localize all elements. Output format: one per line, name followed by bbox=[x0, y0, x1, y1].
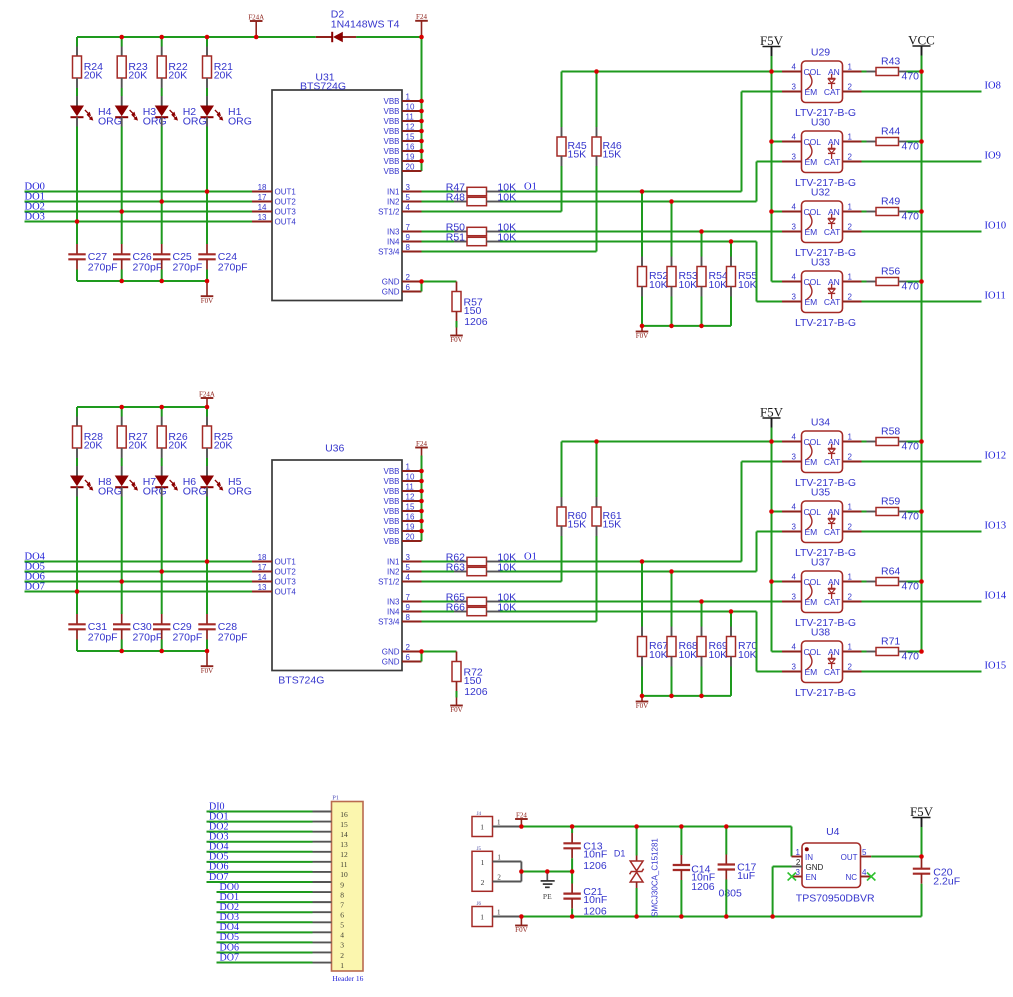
resistor R66 bbox=[446, 601, 516, 615]
svg-text:270pF: 270pF bbox=[133, 631, 163, 643]
resistor R64 bbox=[862, 566, 920, 593]
junction C14 top bbox=[679, 824, 684, 829]
svg-text:14: 14 bbox=[258, 203, 267, 212]
pin 16 VBB of U36 bbox=[383, 513, 421, 526]
pin 17 OUT2 of U36 bbox=[252, 563, 296, 576]
svg-text:9: 9 bbox=[406, 603, 411, 612]
resistor R70 bbox=[727, 612, 758, 667]
svg-text:1: 1 bbox=[497, 909, 501, 917]
resistor R67 bbox=[638, 562, 669, 667]
svg-text:2: 2 bbox=[406, 273, 411, 282]
power flag VCC bbox=[908, 33, 935, 56]
power flag F24 (supply in) bbox=[515, 811, 528, 819]
svg-text:VBB: VBB bbox=[383, 497, 399, 506]
svg-text:VBB: VBB bbox=[383, 157, 399, 166]
wire IO11 bbox=[862, 301, 982, 303]
svg-text:1: 1 bbox=[406, 93, 411, 102]
resistor R44 bbox=[862, 126, 920, 153]
svg-text:20K: 20K bbox=[128, 439, 147, 451]
wire left column drop bbox=[76, 407, 78, 417]
pin 5 of P1 bbox=[313, 921, 345, 930]
svg-text:3: 3 bbox=[792, 453, 797, 462]
junction F5V row3 bbox=[769, 209, 774, 214]
svg-text:2: 2 bbox=[848, 293, 853, 302]
svg-text:1206: 1206 bbox=[464, 316, 488, 328]
wire pulldown ground bus bbox=[642, 695, 731, 697]
optocoupler U29 LTV-217-B-G bbox=[782, 46, 862, 119]
svg-text:GND: GND bbox=[806, 863, 824, 872]
pin 10 VBB of U36 bbox=[383, 473, 421, 486]
wire R61 down bbox=[596, 536, 598, 622]
svg-text:F0V: F0V bbox=[450, 706, 462, 714]
resistor R23 bbox=[117, 37, 148, 88]
resistor R21 bbox=[203, 37, 234, 88]
wire F24 stub bbox=[421, 21, 423, 37]
wire U36 pin to R66 bbox=[422, 611, 455, 613]
wire R45 down bbox=[561, 166, 563, 212]
svg-text:SMCJ30CA_C151281: SMCJ30CA_C151281 bbox=[651, 838, 660, 917]
svg-text:15K: 15K bbox=[603, 149, 622, 161]
wire F24A stub bbox=[255, 21, 257, 37]
svg-text:8: 8 bbox=[406, 243, 411, 252]
svg-text:ST3/4: ST3/4 bbox=[378, 617, 400, 626]
wire U4 GND down bbox=[773, 866, 792, 868]
svg-text:13: 13 bbox=[340, 840, 348, 849]
svg-text:3: 3 bbox=[792, 593, 797, 602]
wire DO4 to P1 pin 4 bbox=[217, 931, 313, 933]
resistor R25 bbox=[203, 407, 234, 458]
svg-text:IN1: IN1 bbox=[387, 557, 400, 566]
junction bus bbox=[159, 649, 164, 654]
svg-text:6: 6 bbox=[406, 653, 411, 662]
svg-text:20: 20 bbox=[406, 163, 415, 172]
svg-text:20K: 20K bbox=[168, 439, 187, 451]
junction H7 output bbox=[119, 579, 124, 584]
ground flag F0V (LED bus) bbox=[201, 666, 214, 675]
junction R64 VCC bbox=[919, 579, 924, 584]
wire R72 to F0V bbox=[456, 691, 458, 698]
svg-text:1206: 1206 bbox=[691, 881, 715, 893]
wire F5V to opto2 COL bbox=[772, 141, 783, 143]
junction R44 VCC bbox=[919, 139, 924, 144]
resistor R53 bbox=[667, 202, 698, 297]
wire IO12 bbox=[862, 461, 982, 463]
wire DO6 to P1 pin 2 bbox=[217, 951, 313, 953]
svg-text:20: 20 bbox=[406, 533, 415, 542]
svg-text:6: 6 bbox=[406, 283, 411, 292]
svg-text:U32: U32 bbox=[811, 186, 830, 198]
power flag F5V bbox=[760, 33, 784, 56]
wire ST3/4 to R46 bbox=[422, 621, 597, 623]
svg-text:2: 2 bbox=[848, 663, 853, 672]
resistor R50 bbox=[446, 221, 516, 235]
resistor R71 bbox=[862, 636, 920, 663]
svg-text:3: 3 bbox=[792, 523, 797, 532]
wire top F24A rail bbox=[77, 406, 207, 408]
wire IN1 riser bbox=[741, 92, 743, 192]
pin 20 VBB of U36 bbox=[383, 533, 421, 546]
svg-text:R43: R43 bbox=[881, 56, 900, 68]
wire DO4 to P1 pin 12 bbox=[207, 851, 313, 853]
svg-text:1: 1 bbox=[848, 433, 853, 442]
svg-text:1206: 1206 bbox=[464, 686, 488, 698]
IC U31 BTS724G body bbox=[272, 71, 402, 300]
junction R59 VCC bbox=[919, 509, 924, 514]
svg-text:20K: 20K bbox=[128, 69, 147, 81]
resistor R28 bbox=[73, 407, 104, 458]
wire R53 to bus bbox=[671, 297, 673, 326]
LED H3 bbox=[115, 96, 167, 128]
svg-text:10: 10 bbox=[340, 870, 348, 879]
junction bus bbox=[119, 649, 124, 654]
wire IO8 bbox=[862, 91, 982, 93]
svg-text:17: 17 bbox=[258, 563, 267, 572]
wire DO3 to P1 pin 5 bbox=[217, 921, 313, 923]
wire R64 to VCC rail bbox=[907, 581, 922, 583]
svg-text:20K: 20K bbox=[84, 69, 103, 81]
svg-text:270pF: 270pF bbox=[133, 261, 163, 273]
pin 10 VBB of U31 bbox=[383, 103, 421, 116]
wire U36 pin to R63 bbox=[422, 571, 455, 573]
wire F0V stub bbox=[520, 917, 522, 926]
resistor R61 bbox=[592, 442, 622, 537]
wire C26 to gnd bus bbox=[121, 270, 123, 282]
junction F5V row2 bbox=[769, 509, 774, 514]
LED H8 bbox=[70, 466, 122, 498]
wire IN2 riser bbox=[756, 532, 758, 572]
wire C13 to mid bbox=[571, 858, 573, 871]
wire bus to F0V bbox=[206, 651, 208, 666]
svg-text:ST3/4: ST3/4 bbox=[378, 247, 400, 256]
wire IO14 bbox=[862, 601, 982, 603]
svg-text:17: 17 bbox=[258, 193, 267, 202]
wire C20 to bottom rail bbox=[921, 884, 923, 917]
capacitor C29 bbox=[153, 614, 202, 643]
junction R52 top bbox=[640, 189, 645, 194]
wire DO3 to P1 pin 13 bbox=[207, 841, 313, 843]
pin 18 OUT1 of U31 bbox=[252, 183, 296, 196]
svg-text:COL: COL bbox=[804, 67, 822, 77]
svg-text:J6: J6 bbox=[477, 902, 482, 907]
svg-text:1: 1 bbox=[848, 63, 853, 72]
wire IN4 row bbox=[500, 241, 757, 243]
svg-text:COL: COL bbox=[804, 207, 822, 217]
resistor R43 bbox=[862, 56, 920, 83]
wire H6 to capacitor bbox=[161, 572, 163, 615]
svg-text:IN2: IN2 bbox=[387, 197, 400, 206]
svg-text:OUT4: OUT4 bbox=[275, 217, 297, 226]
capacitor C31 bbox=[68, 614, 117, 643]
svg-text:10K: 10K bbox=[649, 279, 668, 291]
resistor R60 bbox=[557, 442, 587, 537]
svg-text:IO8: IO8 bbox=[985, 81, 1001, 92]
resistor R27 bbox=[117, 407, 148, 458]
wire F5V to opto4 COL bbox=[772, 651, 783, 653]
wire IN4 dropper bbox=[756, 612, 758, 672]
power flag F24 (block2) bbox=[415, 440, 428, 448]
wire R60 down bbox=[561, 536, 563, 582]
pin 1 VBB of U31 bbox=[383, 93, 421, 106]
svg-text:3: 3 bbox=[340, 941, 344, 950]
resistor R55 bbox=[727, 242, 758, 297]
wire IO15 bbox=[862, 671, 982, 673]
junction H6 output bbox=[159, 569, 164, 574]
svg-text:20K: 20K bbox=[214, 439, 233, 451]
junction R68 top bbox=[669, 569, 674, 574]
resistor R63 bbox=[446, 561, 516, 575]
wire bottom supply rail bbox=[521, 916, 921, 918]
wire LED H6 down bbox=[161, 497, 163, 572]
svg-text:IO9: IO9 bbox=[985, 151, 1001, 162]
wire D1 to bottom rail bbox=[636, 888, 638, 917]
svg-text:270pF: 270pF bbox=[88, 631, 118, 643]
resistor R68 bbox=[667, 572, 698, 667]
pin 17 OUT2 of U31 bbox=[252, 193, 296, 206]
pin 16 of P1 bbox=[313, 810, 349, 819]
junction VBB pin 19 bbox=[419, 529, 424, 534]
capacitor C27 bbox=[68, 244, 117, 273]
wire U31 pin to R47 bbox=[422, 191, 455, 193]
pin 5 IN2 of U36 bbox=[387, 563, 421, 576]
wire IN3 row bbox=[500, 231, 782, 233]
svg-text:10K: 10K bbox=[679, 279, 698, 291]
wire F5V row bbox=[562, 441, 783, 443]
svg-text:ST1/2: ST1/2 bbox=[378, 577, 400, 586]
svg-text:IN4: IN4 bbox=[387, 607, 400, 616]
junction VBB pin 1 bbox=[419, 469, 424, 474]
wire capacitor ground bus bbox=[77, 280, 207, 282]
svg-text:ST1/2: ST1/2 bbox=[378, 207, 400, 216]
resistor R69 bbox=[697, 602, 728, 667]
svg-text:R64: R64 bbox=[881, 566, 900, 578]
wire H3 to capacitor bbox=[121, 212, 123, 245]
svg-text:Header 16: Header 16 bbox=[332, 974, 363, 983]
wire ST1/2 to R45 bbox=[422, 581, 562, 583]
wire R22 to LED bbox=[161, 88, 163, 96]
svg-text:2: 2 bbox=[406, 643, 411, 652]
wire R46 down bbox=[596, 166, 598, 252]
wire IN1 row bbox=[500, 191, 742, 193]
wire H1 to capacitor bbox=[206, 192, 208, 245]
svg-text:15K: 15K bbox=[568, 149, 587, 161]
wire pulldown ground bus bbox=[642, 325, 731, 327]
svg-text:VBB: VBB bbox=[383, 117, 399, 126]
svg-text:VBB: VBB bbox=[383, 487, 399, 496]
svg-text:AN: AN bbox=[828, 67, 840, 77]
junction D1 bottom bbox=[634, 914, 639, 919]
wire LED H5 down bbox=[206, 497, 208, 562]
svg-text:3: 3 bbox=[792, 153, 797, 162]
pin 2 GND of U4 bbox=[792, 858, 824, 872]
svg-text:IN3: IN3 bbox=[387, 597, 400, 606]
wire C31 to gnd bus bbox=[76, 640, 78, 652]
resistor R47 bbox=[446, 181, 516, 195]
svg-text:4: 4 bbox=[792, 433, 797, 442]
junction R70 top bbox=[729, 609, 734, 614]
ground flag F0V (LED bus) bbox=[201, 296, 214, 305]
pin 19 VBB of U36 bbox=[383, 523, 421, 536]
junction H4 output bbox=[75, 219, 80, 224]
svg-text:VBB: VBB bbox=[383, 537, 399, 546]
wire R71 to VCC rail bbox=[907, 651, 922, 653]
pin 15 VBB of U36 bbox=[383, 503, 421, 516]
pin 14 of P1 bbox=[313, 830, 349, 839]
pin 10 of P1 bbox=[313, 870, 349, 879]
wire R54 to bus bbox=[701, 297, 703, 326]
wire R67 to bus bbox=[641, 667, 643, 696]
svg-text:U4: U4 bbox=[826, 826, 840, 838]
svg-text:F24: F24 bbox=[416, 13, 427, 21]
svg-text:EM: EM bbox=[805, 297, 818, 307]
svg-text:13: 13 bbox=[258, 213, 267, 222]
svg-text:OUT4: OUT4 bbox=[275, 587, 297, 596]
wire R27 to LED bbox=[121, 458, 123, 466]
resistor R22 bbox=[157, 37, 188, 88]
wire F5V to opto3 COL bbox=[772, 581, 783, 583]
wire R44 to VCC rail bbox=[907, 141, 922, 143]
optocoupler U30 LTV-217-B-G bbox=[782, 116, 862, 189]
LED H1 bbox=[200, 96, 252, 128]
wire IO13 bbox=[862, 531, 982, 533]
ground flag F0V (pulldowns) bbox=[636, 702, 649, 711]
LED H4 bbox=[70, 96, 122, 128]
svg-text:IN4: IN4 bbox=[387, 237, 400, 246]
optocoupler U32 LTV-217-B-G bbox=[782, 186, 862, 259]
wire DO2 to P1 pin 6 bbox=[217, 911, 313, 913]
optocoupler U35 LTV-217-B-G bbox=[782, 486, 862, 559]
pin 3 EN of U4 bbox=[788, 868, 817, 882]
svg-text:GND: GND bbox=[382, 657, 400, 666]
pin 8 ST3/4 of U31 bbox=[378, 243, 421, 256]
ground flag F0V (R57) bbox=[450, 336, 463, 345]
svg-text:270pF: 270pF bbox=[173, 631, 203, 643]
svg-text:R44: R44 bbox=[881, 126, 900, 138]
pin 13 OUT4 of U31 bbox=[252, 213, 296, 226]
LED H7 bbox=[115, 466, 167, 498]
svg-text:20K: 20K bbox=[84, 439, 103, 451]
svg-text:IN3: IN3 bbox=[387, 227, 400, 236]
junction VBB pin 10 bbox=[419, 479, 424, 484]
svg-text:EM: EM bbox=[805, 597, 818, 607]
svg-text:F24A: F24A bbox=[248, 13, 264, 21]
pin 13 of P1 bbox=[313, 840, 349, 849]
svg-text:VBB: VBB bbox=[383, 467, 399, 476]
wire R52 to bus bbox=[641, 297, 643, 326]
junction VBB pin 12 bbox=[419, 129, 424, 134]
wire H2 to capacitor bbox=[161, 202, 163, 245]
junction pulldown bus bbox=[699, 694, 704, 699]
junction R69 top bbox=[699, 599, 704, 604]
wire C17 to bottom rail bbox=[725, 880, 727, 917]
junction H2 output bbox=[159, 199, 164, 204]
wire R25 to LED bbox=[206, 458, 208, 466]
wire LED H4 down bbox=[76, 127, 78, 222]
wire bus to F0V flag bbox=[641, 326, 643, 332]
svg-text:1: 1 bbox=[848, 203, 853, 212]
junction C17 top bbox=[724, 824, 729, 829]
wire DO6 bbox=[25, 581, 253, 583]
wire U31 pin to R48 bbox=[422, 201, 455, 203]
svg-text:IO10: IO10 bbox=[985, 221, 1007, 232]
wire R59 to VCC rail bbox=[907, 511, 922, 513]
svg-text:IN1: IN1 bbox=[387, 187, 400, 196]
junction VBB pin 15 bbox=[419, 139, 424, 144]
junction R58 VCC bbox=[919, 439, 924, 444]
svg-text:6: 6 bbox=[340, 911, 344, 920]
svg-text:9: 9 bbox=[406, 233, 411, 242]
svg-text:COL: COL bbox=[804, 577, 822, 587]
svg-text:10K: 10K bbox=[679, 649, 698, 661]
junction H8 output bbox=[75, 589, 80, 594]
svg-text:OUT2: OUT2 bbox=[275, 567, 297, 576]
power flag F5V bbox=[760, 405, 784, 428]
resistor R56 bbox=[862, 266, 920, 293]
wire DO1 bbox=[25, 201, 253, 203]
junction rail col2 bbox=[119, 405, 124, 410]
svg-text:VBB: VBB bbox=[383, 477, 399, 486]
svg-text:1: 1 bbox=[480, 913, 484, 922]
svg-text:7: 7 bbox=[340, 900, 344, 909]
svg-text:1: 1 bbox=[848, 643, 853, 652]
wire GND to R57 bbox=[422, 281, 457, 283]
junction F5V row3 bbox=[769, 579, 774, 584]
svg-text:19: 19 bbox=[406, 523, 415, 532]
wire DO7 to P1 pin 9 bbox=[207, 881, 313, 883]
connector J5 bbox=[472, 847, 521, 892]
junction R49 VCC bbox=[919, 209, 924, 214]
wire R43 to VCC rail bbox=[907, 71, 922, 73]
svg-text:VBB: VBB bbox=[383, 107, 399, 116]
svg-text:3: 3 bbox=[406, 553, 411, 562]
svg-text:R66: R66 bbox=[446, 601, 465, 613]
wire R28 to LED bbox=[76, 458, 78, 466]
svg-text:R59: R59 bbox=[881, 496, 900, 508]
svg-text:U33: U33 bbox=[811, 256, 830, 268]
wire U31 pin to R50 bbox=[422, 231, 455, 233]
wire IO10 bbox=[862, 231, 982, 233]
svg-text:16: 16 bbox=[406, 513, 415, 522]
pin 16 VBB of U31 bbox=[383, 143, 421, 156]
svg-text:F24: F24 bbox=[516, 811, 527, 819]
svg-text:10K: 10K bbox=[738, 279, 757, 291]
svg-text:R56: R56 bbox=[881, 266, 900, 278]
junction D1 top bbox=[634, 824, 639, 829]
wire F24 stub bbox=[520, 819, 522, 827]
svg-text:AN: AN bbox=[828, 577, 840, 587]
wire IN4 row bbox=[500, 611, 757, 613]
pin 1 VBB of U36 bbox=[383, 463, 421, 476]
pin 6 GND of U36 bbox=[382, 653, 422, 666]
junction bus bbox=[119, 279, 124, 284]
svg-text:15: 15 bbox=[340, 820, 348, 829]
wire bus to F0V flag bbox=[641, 696, 643, 702]
svg-text:VBB: VBB bbox=[383, 507, 399, 516]
svg-text:4: 4 bbox=[792, 63, 797, 72]
wire ST1/2 to R45 bbox=[422, 211, 562, 213]
resistor R57 bbox=[452, 282, 488, 329]
wire ST3/4 to R46 bbox=[422, 251, 597, 253]
junction pulldown bus bbox=[669, 324, 674, 329]
wire DO4 bbox=[25, 561, 253, 563]
svg-text:F0V: F0V bbox=[636, 702, 648, 710]
svg-text:18: 18 bbox=[258, 553, 267, 562]
junction R56 VCC bbox=[919, 279, 924, 284]
pin 3 of P1 bbox=[313, 941, 345, 950]
wire bus to F0V bbox=[206, 281, 208, 296]
junction GND bbox=[419, 649, 424, 654]
wire R21 to LED bbox=[206, 88, 208, 96]
svg-text:GND: GND bbox=[382, 277, 400, 286]
